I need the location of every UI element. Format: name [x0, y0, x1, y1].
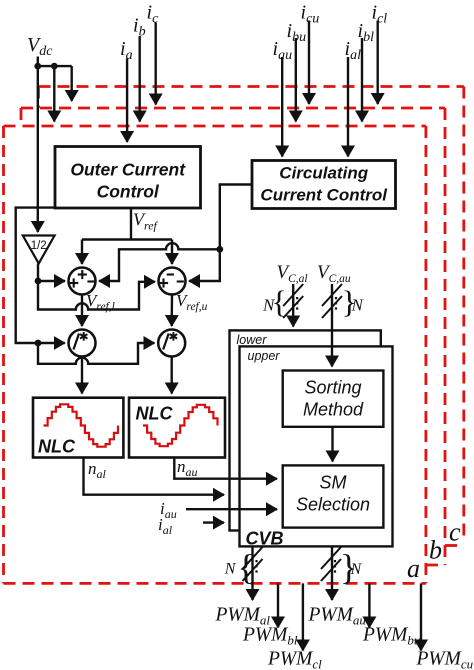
svg-text:Sorting: Sorting	[304, 378, 361, 398]
svg-text:{: {	[238, 547, 255, 587]
svg-text:N: N	[224, 561, 237, 578]
svg-text:Method: Method	[303, 399, 364, 419]
svg-text:SM: SM	[320, 473, 347, 493]
svg-text:}: }	[340, 547, 357, 587]
svg-text:a: a	[407, 554, 420, 583]
svg-text:Circulating: Circulating	[279, 164, 368, 183]
svg-text:1/2: 1/2	[31, 240, 47, 252]
svg-text:upper: upper	[248, 349, 281, 363]
svg-text:Selection: Selection	[296, 495, 370, 515]
svg-text:Current Control: Current Control	[260, 186, 388, 205]
svg-text:CVB: CVB	[246, 529, 284, 549]
svg-text:c: c	[449, 518, 461, 547]
svg-text:Control: Control	[97, 182, 160, 202]
svg-text:b: b	[429, 536, 442, 565]
svg-text:NLC: NLC	[38, 437, 76, 457]
svg-text:Outer Current: Outer Current	[70, 160, 186, 180]
svg-text:}: }	[342, 284, 357, 320]
svg-text:NLC: NLC	[136, 404, 174, 424]
svg-text:lower: lower	[237, 333, 268, 347]
svg-text:{: {	[272, 284, 287, 320]
